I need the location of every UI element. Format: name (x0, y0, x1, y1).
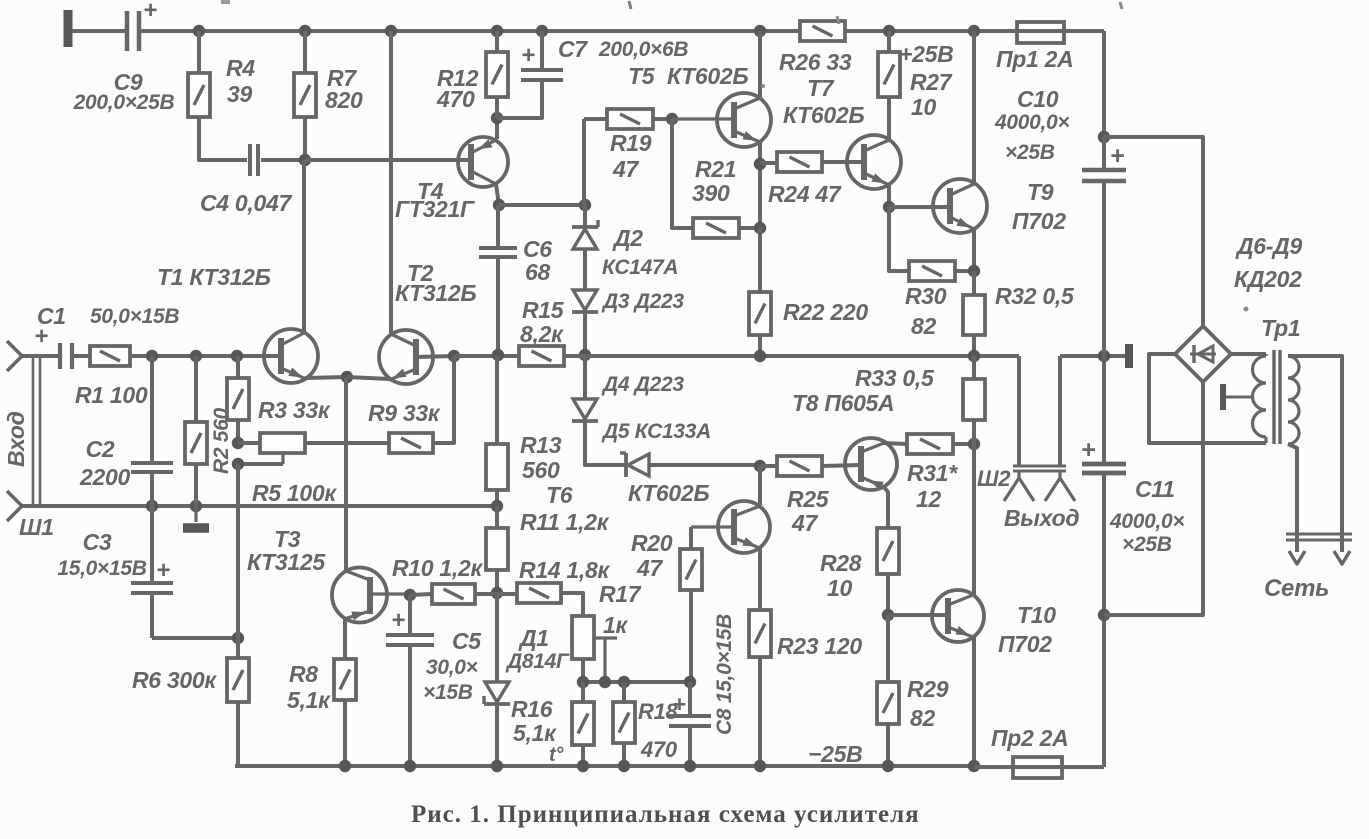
diode D4 (572, 357, 598, 421)
svg-text:560: 560 (522, 457, 560, 483)
node rail-R16 (577, 760, 589, 772)
wire rail to top-right corner (1057, 29, 1104, 33)
node C2 bottom (146, 500, 158, 512)
svg-text:Д4 Д223: Д4 Д223 (601, 373, 684, 396)
svg-text:R20: R20 (631, 530, 673, 556)
label R33 (855, 365, 935, 391)
wire T2 emitter to common node (347, 377, 390, 379)
capacitor C2 (131, 356, 173, 506)
wire input to C1 (22, 354, 58, 358)
wire T9 collector to rail (972, 31, 976, 183)
resistor R32 (963, 271, 985, 356)
wire top corner down (1102, 31, 1106, 137)
transistor T3 (rotated, base right) (332, 568, 410, 623)
svg-text:200,0×6В: 200,0×6В (598, 38, 688, 61)
svg-text:С8 15,0×15В: С8 15,0×15В (713, 614, 736, 735)
svg-text:5,1к: 5,1к (513, 720, 557, 746)
label Pr1 (996, 46, 1073, 72)
svg-text:Т1 КТ312Б: Т1 КТ312Б (157, 264, 271, 290)
node tap-row (599, 676, 611, 688)
label t deg (549, 744, 564, 766)
svg-text:Пр1 2А: Пр1 2А (996, 46, 1073, 72)
node ground row end (491, 500, 503, 512)
resistor R10 (432, 584, 475, 604)
wire bias row (583, 680, 690, 684)
node rail-T2 collector (385, 25, 397, 37)
label C10 (994, 86, 1069, 164)
svg-text:47: 47 (636, 555, 663, 581)
node R10-R14-R11-D1 (491, 587, 503, 599)
label +25V (899, 41, 953, 67)
wire T9 emitter down (972, 229, 976, 271)
label R13 (520, 432, 562, 483)
label T3 (247, 526, 326, 575)
resistor R3 (227, 356, 249, 420)
wire T4c to diode chain (499, 203, 584, 207)
resistor R17 (trimmer) (572, 616, 617, 682)
node T2 base (448, 350, 460, 362)
svg-text:30,0×: 30,0× (426, 656, 478, 679)
svg-text:ГТ321Г: ГТ321Г (395, 196, 475, 222)
label R25 (787, 486, 830, 536)
svg-text:КТ602Б: КТ602Б (667, 63, 748, 89)
transistor T8 (PNP) (845, 438, 897, 490)
wire output drop right (1058, 356, 1062, 466)
svg-text:R17: R17 (599, 581, 642, 607)
wire R1 to T1 base (130, 354, 281, 358)
svg-text:R33 0,5: R33 0,5 (855, 365, 935, 391)
node rail-R18 (618, 760, 630, 772)
scan speck e (761, 84, 765, 88)
svg-text:R32 0,5: R32 0,5 (995, 283, 1075, 309)
svg-text:Т8 П605А: Т8 П605А (792, 390, 894, 416)
label R18 (638, 699, 679, 762)
wire node to R14 (497, 592, 517, 596)
capacitor C10 (1082, 137, 1126, 356)
svg-text:С5: С5 (452, 628, 482, 654)
label C4 (200, 190, 292, 216)
label C9 value (73, 69, 175, 114)
svg-text:50,0×15В: 50,0×15В (90, 305, 179, 328)
svg-text:10: 10 (911, 94, 936, 120)
svg-text:Пр2 2А: Пр2 2А (991, 725, 1068, 751)
label D1 (505, 625, 570, 673)
wire T6 collector up (758, 466, 762, 505)
capacitor C6 (479, 205, 517, 355)
svg-text:t°: t° (549, 744, 564, 766)
connector Sh2 bars (1013, 466, 1066, 471)
svg-text:С3: С3 (83, 529, 112, 555)
label T10 (998, 602, 1056, 657)
capacitor C4 (250, 144, 258, 176)
resistor R16 (572, 682, 594, 766)
node T3c-C5-R10 (404, 589, 416, 601)
svg-text:820: 820 (325, 87, 363, 113)
wire T4 emitter up (495, 118, 499, 139)
svg-text:R21: R21 (695, 156, 736, 182)
node C2 top (146, 350, 158, 362)
capacitor C8 (669, 682, 711, 766)
label Tr1 (1261, 315, 1300, 341)
node C8-row (684, 676, 696, 688)
wire T5 emitter down (758, 142, 762, 228)
svg-text:П702: П702 (1012, 208, 1066, 234)
label R30 (905, 283, 947, 339)
wire node to T4 base (305, 158, 471, 162)
label C5 (423, 628, 482, 704)
svg-text:+: + (143, 0, 157, 24)
wire ground row (22, 504, 497, 508)
resistor R7 (294, 31, 316, 117)
mains arrow left (1289, 551, 1305, 564)
svg-text:R4: R4 (226, 55, 255, 81)
resistor R2 (185, 356, 207, 506)
node feedback R6-C3 (232, 632, 244, 644)
label R27 (910, 69, 953, 120)
wire D4 to D5 (585, 421, 626, 465)
label C11 (1109, 476, 1184, 556)
node R7-C4-T1c-T4b (299, 154, 311, 166)
transformer Tr1 primary winding (1288, 356, 1299, 444)
label R9 (368, 400, 441, 426)
node D5-R25-T6c (754, 460, 766, 472)
wire T1 emitter to common node (305, 377, 347, 378)
resistor R30 (909, 261, 955, 281)
wire R28 to T10 base node (886, 574, 890, 615)
svg-text:12: 12 (916, 486, 941, 512)
label D5 (601, 420, 711, 443)
svg-text:R29: R29 (907, 676, 949, 702)
node rail-T9 collector (968, 25, 980, 37)
label R12 (436, 65, 479, 112)
label T6 (546, 480, 709, 508)
svg-text:Сеть: Сеть (1264, 575, 1329, 602)
wire bridge AC right (1231, 352, 1266, 356)
svg-text:R13: R13 (520, 432, 562, 458)
svg-text:С4 0,047: С4 0,047 (200, 190, 292, 216)
svg-text:R24 47: R24 47 (768, 181, 842, 207)
transistor T2 (mirrored) (379, 330, 433, 384)
resistor R9 (389, 433, 433, 453)
svg-text:С10: С10 (1017, 86, 1059, 112)
wire R21 to T5 emitter (739, 226, 760, 230)
label C3 (57, 529, 146, 580)
svg-text:4000,0×: 4000,0× (994, 111, 1069, 134)
wire R21 branch (672, 119, 693, 228)
wire R3 to R5 row (236, 420, 240, 443)
power terminal +25V (top left) (64, 10, 73, 47)
svg-text:Ш1: Ш1 (19, 514, 54, 540)
node R18-row (618, 676, 630, 688)
svg-text:47: 47 (612, 156, 639, 182)
mains plug bars (1286, 534, 1352, 540)
label T7 (783, 75, 864, 128)
wire T8 collector to R31 (884, 443, 907, 444)
scan speck f (1244, 307, 1249, 312)
node rail-R4 (193, 25, 205, 37)
svg-text:Т6: Т6 (546, 482, 573, 508)
wire T8 emitter to R28 (884, 487, 888, 528)
svg-text:Вход: Вход (3, 411, 29, 467)
label Sh2 (977, 466, 1011, 491)
svg-text:R3 33к: R3 33к (258, 397, 331, 423)
wire T7e to T9 base (889, 205, 950, 209)
svg-text:Т10: Т10 (1017, 602, 1056, 628)
svg-text:Рис. 1. Принципиальная схема у: Рис. 1. Принципиальная схема усилителя (411, 801, 920, 828)
node R24 branch (754, 158, 766, 170)
svg-text:×15В: ×15В (423, 681, 473, 704)
wire T2 base lead (416, 356, 454, 357)
wire R31 to column (953, 442, 974, 446)
svg-text:R5 100к: R5 100к (252, 480, 337, 506)
label Vhod (rotated) (3, 411, 29, 467)
transistor T5 (672, 93, 771, 147)
svg-text:R25: R25 (787, 486, 830, 512)
node T4c-C6-R19branch (493, 199, 505, 211)
node rail-C8 (684, 760, 696, 772)
svg-text:КТ312Б: КТ312Б (395, 280, 476, 306)
capacitor C11 (1081, 356, 1126, 767)
wire R5 left lead (238, 441, 260, 445)
node C6 bottom (492, 349, 504, 361)
node R28-T10b-R29 (882, 609, 894, 621)
wire 0V row right (1060, 354, 1125, 358)
wire R11 to bias node (495, 570, 499, 593)
label Set (1264, 575, 1329, 602)
svg-text:×25В: ×25В (1122, 533, 1172, 556)
svg-text:R16: R16 (511, 696, 553, 722)
svg-text:Т7: Т7 (807, 75, 835, 101)
label R26 (779, 49, 852, 75)
label D6-D9 (1234, 233, 1302, 292)
label C2 (79, 436, 130, 490)
wire R5 tap run (238, 462, 283, 466)
svg-text:R10 1,2к: R10 1,2к (392, 555, 483, 581)
svg-text:КТ602Б: КТ602Б (628, 480, 709, 506)
label R1 (75, 382, 148, 408)
svg-text:R1 100: R1 100 (75, 382, 148, 408)
wire R10 to node (475, 592, 497, 596)
wire R24 to T7 base (822, 160, 864, 164)
wire T2 collector to rail (389, 31, 393, 333)
svg-text:КТ3125: КТ3125 (247, 549, 326, 575)
resistor R12 (486, 31, 508, 118)
label R11 (520, 509, 610, 535)
label Pr2 (991, 725, 1068, 751)
svg-text:390: 390 (692, 180, 730, 206)
svg-text:1к: 1к (603, 612, 628, 638)
mains arrow right (1334, 551, 1350, 564)
node rail-C7 (536, 25, 548, 37)
svg-text:−25В: −25В (808, 741, 862, 767)
wire R17 to bias row (581, 659, 585, 682)
resistor R14 (517, 583, 561, 603)
fuse Pr1 (1017, 22, 1064, 43)
label R20 (631, 530, 673, 581)
resistor R22 (749, 228, 771, 356)
label R19 (610, 130, 652, 182)
input connector pin lower (7, 491, 22, 521)
input cable line a (32, 356, 35, 506)
svg-text:R23 120: R23 120 (777, 633, 862, 659)
connector Sh2 prong left (1004, 471, 1034, 501)
label R23 (777, 633, 862, 659)
wire T3 emitter to R8 (343, 618, 347, 659)
label R29 (907, 676, 949, 731)
resistor R8 (334, 659, 356, 700)
svg-text:R19: R19 (610, 130, 652, 156)
node rail-T5 collector (754, 25, 766, 37)
diode D2 (zener) (572, 205, 598, 249)
node T4e-R12-C7 (491, 112, 503, 124)
svg-text:П702: П702 (998, 631, 1052, 657)
resistor R6 (227, 658, 249, 702)
capacitor C7 (497, 31, 563, 118)
svg-text:R14 1,8к: R14 1,8к (519, 557, 610, 583)
svg-text:Выход: Выход (1004, 505, 1079, 531)
svg-text:82: 82 (911, 313, 936, 339)
svg-text:Д6-Д9: Д6-Д9 (1235, 233, 1302, 259)
svg-text:82: 82 (910, 705, 935, 731)
wire bridge+ run (1104, 137, 1203, 326)
node bridge- branch (1098, 609, 1110, 621)
transistor T6 (691, 501, 770, 553)
node diode chain top (579, 199, 591, 211)
svg-text:R8: R8 (289, 661, 318, 687)
node R3-R5 (232, 437, 244, 449)
capacitor C1 (34, 323, 72, 369)
wire +25V rail right segment (845, 29, 1020, 33)
resistor R29 (877, 615, 899, 766)
label R4 (226, 55, 255, 107)
svg-text:39: 39 (227, 81, 252, 107)
resistor R20 (680, 549, 702, 590)
node R3 top (231, 350, 243, 362)
wire T10 collector up (972, 444, 976, 595)
label C7 (558, 36, 688, 62)
label T2 (395, 260, 476, 306)
node R21-R22 (754, 222, 766, 234)
transformer Tr1 secondary winding (1253, 354, 1267, 443)
label D4 (601, 373, 684, 396)
svg-text:Тр1: Тр1 (1261, 315, 1300, 341)
node R31-R33 (968, 438, 980, 450)
wire T5 collector to rail (758, 31, 762, 97)
wire output row (564, 354, 1019, 358)
diode D1 (zener) (484, 593, 510, 766)
label R14 (519, 557, 610, 583)
label -25V (808, 741, 862, 767)
svg-text:47: 47 (791, 510, 818, 536)
label Sh1 (19, 514, 54, 540)
wire D3 to row (583, 312, 587, 355)
label T9 (1012, 179, 1066, 234)
wire T1 collector (302, 160, 306, 333)
wire R9 to T2 base (433, 356, 454, 443)
node T5 base (666, 113, 678, 125)
resistor R28 (877, 528, 899, 574)
node rail-R27 (883, 25, 895, 37)
svg-text:+: + (156, 557, 170, 584)
wire T3c to R10 (410, 594, 432, 595)
wire R14 to R17 (561, 593, 583, 616)
wire D5 to T6 collector node (649, 463, 760, 467)
svg-text:Т5: Т5 (628, 63, 656, 89)
diode D5 (horizontal) (620, 453, 649, 477)
node R30-R32 (968, 265, 980, 277)
label T5 (628, 63, 748, 89)
scan speck c (837, 16, 839, 24)
svg-text:Д1: Д1 (518, 625, 549, 651)
svg-text:68: 68 (525, 259, 550, 285)
capacitor C9 (127, 0, 157, 51)
resistor R24 (777, 152, 822, 172)
svg-text:КС147А: КС147А (602, 256, 678, 279)
resistor R13 (486, 356, 508, 490)
wire +25V rail left segment (72, 29, 125, 33)
svg-text:2200: 2200 (79, 464, 130, 490)
svg-text:R9 33к: R9 33к (368, 400, 441, 426)
wire T2base to R15 (454, 354, 519, 358)
node R17-row (577, 676, 589, 688)
resistor R4 (188, 31, 210, 117)
label R16 (511, 696, 557, 746)
label R7 (325, 65, 363, 113)
svg-text:R28: R28 (820, 550, 862, 576)
resistor R11 (486, 506, 508, 570)
terminal 0V bar (1125, 344, 1133, 368)
wire R30 to column (955, 269, 974, 273)
node rail-R7 (299, 25, 311, 37)
svg-text:Ш2: Ш2 (977, 466, 1011, 491)
input connector pin upper (7, 341, 22, 371)
node rail-T10e (968, 760, 980, 772)
label R17 (599, 581, 642, 638)
wire output drop left (1017, 356, 1021, 466)
wire T10 emitter down (972, 637, 976, 766)
node R32-output row (968, 350, 980, 362)
node rail-R8 (339, 760, 351, 772)
label R28 (820, 550, 862, 601)
label R8 (287, 661, 331, 713)
label R32 (995, 283, 1075, 309)
label R2 (rotated) (210, 407, 233, 474)
transistor T1 (264, 329, 318, 383)
wire R27 to T7 collector (887, 97, 891, 140)
node R2 top (190, 350, 202, 362)
svg-text:КТ602Б: КТ602Б (783, 102, 864, 128)
svg-text:+: + (1081, 436, 1096, 464)
transistor T10 (932, 590, 984, 642)
node R2 bottom / ground (190, 500, 202, 512)
svg-text:Д3 Д223: Д3 Д223 (601, 290, 684, 313)
wire T6 emitter to R23 (758, 548, 762, 610)
svg-text:×25В: ×25В (1005, 141, 1055, 164)
node rail-C5 (404, 760, 416, 772)
resistor R26 (inline on rail) (800, 21, 845, 41)
svg-text:15,0×15В: 15,0×15В (57, 557, 146, 580)
wire R25 to T8 base (822, 465, 861, 466)
scan speck a (221, 0, 230, 4)
node rail-R12 (491, 25, 503, 37)
svg-text:200,0×25В: 200,0×25В (73, 91, 175, 114)
wire bridge AC left (1149, 354, 1266, 443)
wire chain to R19 (584, 119, 607, 205)
wire R24 lead (760, 161, 777, 165)
wire R6 to negative rail (236, 702, 240, 766)
transformer core (1274, 350, 1280, 444)
caption (411, 801, 920, 828)
